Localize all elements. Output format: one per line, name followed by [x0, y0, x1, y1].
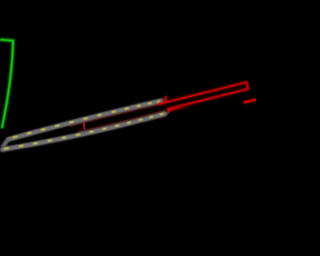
bottom rail: border: [2, 114, 165, 150]
red tip cap at bottom rail: [167, 109, 170, 113]
dark red trail edge above bottom rail (extension of quad bottom edge): [78, 110, 165, 131]
red line from bottom rail tip (fading): [168, 107, 191, 111]
red trail quad: [158, 82, 248, 109]
green trail wall: [0, 40, 13, 129]
top rail: yellow dashes: [13, 101, 160, 138]
far right red segment: [244, 99, 258, 102]
green trail wall (glow): [0, 40, 13, 129]
left connector rail: fill: [2, 140, 7, 147]
faint dark red edge below bottom rail near tip: [140, 117, 166, 123]
left connector rail: border: [2, 140, 7, 148]
red trail quad (glow): [158, 82, 248, 109]
top rail: fill: [9, 101, 162, 140]
red tick between rails: [83, 122, 86, 129]
bottom rail: fill: [3, 114, 165, 150]
far right red segment (glow): [244, 99, 258, 102]
bottom rail: yellow dashes: [4, 114, 164, 149]
dark red trail edge under top rail (extension of quad top edge): [70, 104, 162, 126]
top rail: border: [8, 101, 162, 140]
